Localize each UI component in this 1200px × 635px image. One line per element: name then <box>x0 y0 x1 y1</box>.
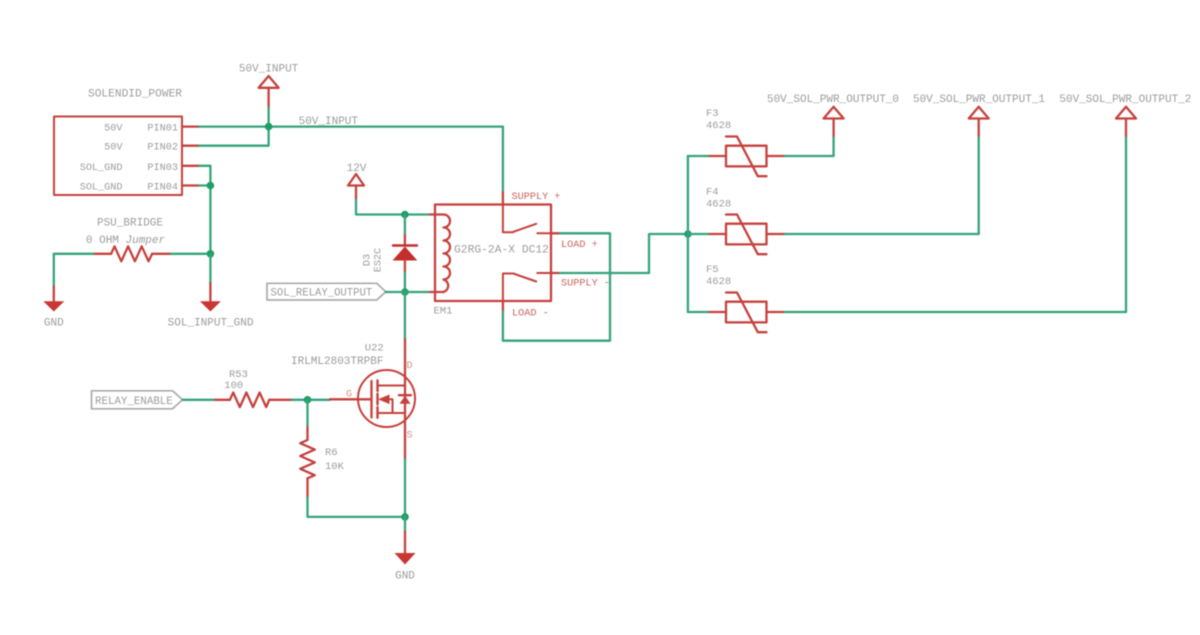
resistor PSU_BRIDGE <box>86 217 171 261</box>
fuse F3 <box>706 108 785 176</box>
svg-text:F3: F3 <box>706 108 719 120</box>
svg-text:LOAD +: LOAD + <box>561 240 598 251</box>
svg-text:50V_INPUT: 50V_INPUT <box>239 64 299 76</box>
junction <box>401 513 409 521</box>
wire <box>386 291 430 293</box>
svg-text:LOAD -: LOAD - <box>512 309 549 320</box>
wire <box>688 155 708 157</box>
fuse F4 <box>706 187 785 255</box>
wire <box>199 125 503 127</box>
power 50V_INPUT <box>239 64 299 108</box>
junction <box>304 396 312 404</box>
wire <box>209 186 211 254</box>
svg-text:4628: 4628 <box>706 276 731 288</box>
resistor R6 <box>300 426 344 498</box>
svg-text:D3: D3 <box>363 254 374 266</box>
pin LOAD- <box>503 301 549 320</box>
wire <box>785 136 834 156</box>
label SOL_RELAY_OUTPUT <box>267 283 386 300</box>
svg-text:R6: R6 <box>325 447 338 459</box>
pin PIN01 <box>104 124 199 135</box>
svg-text:U22: U22 <box>365 343 384 355</box>
wire <box>54 254 94 287</box>
wire <box>292 399 330 401</box>
wire <box>785 136 979 234</box>
pin SUPPLY+ <box>503 191 561 205</box>
svg-text:RELAY_ENABLE: RELAY_ENABLE <box>95 396 173 408</box>
svg-text:S: S <box>407 431 413 442</box>
svg-text:50V: 50V <box>104 124 123 135</box>
wire <box>404 273 406 293</box>
svg-text:SUPPLY +: SUPPLY + <box>512 192 561 203</box>
wire <box>687 156 689 312</box>
junction <box>401 288 409 296</box>
fuse F5 <box>706 264 785 332</box>
svg-text:4628: 4628 <box>706 199 731 211</box>
wire <box>688 233 708 235</box>
power 50V_SOL_PWR_OUTPUT_0 <box>767 94 899 136</box>
svg-text:EM1: EM1 <box>434 306 453 318</box>
relay contact lower <box>503 273 551 301</box>
svg-text:F5: F5 <box>706 264 719 276</box>
svg-text:50V_SOL_PWR_OUTPUT_0: 50V_SOL_PWR_OUTPUT_0 <box>767 94 899 106</box>
svg-text:50V: 50V <box>104 143 123 154</box>
relay coil <box>430 215 450 293</box>
wire <box>404 517 406 532</box>
svg-text:PIN04: PIN04 <box>147 183 178 194</box>
svg-text:0 OHM Jumper: 0 OHM Jumper <box>86 235 166 247</box>
wire <box>688 311 708 313</box>
pin PIN03 <box>80 163 200 174</box>
pin LOAD+ <box>551 233 598 251</box>
svg-text:SUPPLY -: SUPPLY - <box>561 279 610 290</box>
ground GND <box>43 287 64 330</box>
diode D3 <box>363 234 418 273</box>
svg-text:SOL_GND: SOL_GND <box>80 183 123 194</box>
wire <box>785 136 1126 312</box>
wire <box>404 215 406 234</box>
power 12V <box>347 163 367 200</box>
svg-text:PIN03: PIN03 <box>147 163 178 174</box>
label RELAY_ENABLE <box>92 391 183 409</box>
wire <box>199 166 210 186</box>
junction <box>401 211 409 219</box>
relay EM1 <box>434 205 552 318</box>
svg-text:ES2C: ES2C <box>374 248 385 272</box>
resistor R53 <box>215 369 292 407</box>
svg-text:GND: GND <box>44 318 64 330</box>
svg-text:50V_SOL_PWR_OUTPUT_2: 50V_SOL_PWR_OUTPUT_2 <box>1059 94 1191 106</box>
connector SOLENDID_POWER body <box>54 89 182 196</box>
power 50V_SOL_PWR_OUTPUT_1 <box>913 94 1045 136</box>
junction <box>265 123 273 131</box>
wire <box>503 233 610 340</box>
svg-text:D: D <box>407 361 413 372</box>
svg-text:GND: GND <box>395 571 415 583</box>
svg-text:50V_SOL_PWR_OUTPUT_1: 50V_SOL_PWR_OUTPUT_1 <box>913 94 1045 106</box>
svg-text:G: G <box>346 390 352 401</box>
wire <box>306 400 308 426</box>
pin SUPPLY- <box>551 273 610 290</box>
transistor U22 <box>291 339 415 459</box>
wire <box>199 184 210 186</box>
pin PIN02 <box>104 143 199 154</box>
svg-text:50V_INPUT: 50V_INPUT <box>299 116 359 128</box>
wire <box>356 200 430 215</box>
wire <box>267 108 269 127</box>
svg-text:PIN02: PIN02 <box>147 143 178 154</box>
svg-text:SOL_RELAY_OUTPUT: SOL_RELAY_OUTPUT <box>271 288 373 300</box>
junction <box>207 250 215 258</box>
wire <box>502 127 504 191</box>
junction <box>684 230 692 238</box>
pin PIN04 <box>80 183 200 194</box>
svg-text:SOL_GND: SOL_GND <box>80 163 123 174</box>
wire <box>308 498 406 517</box>
svg-text:F4: F4 <box>706 187 719 199</box>
wire <box>404 292 406 339</box>
svg-text:10K: 10K <box>325 461 345 473</box>
svg-text:PSU_BRIDGE: PSU_BRIDGE <box>97 217 163 229</box>
junction <box>207 182 215 190</box>
wire <box>560 234 688 273</box>
svg-text:100: 100 <box>224 380 243 392</box>
ground GND bottom <box>395 532 416 583</box>
svg-text:SOL_INPUT_GND: SOL_INPUT_GND <box>168 318 254 330</box>
wire <box>209 254 211 283</box>
wire <box>199 127 268 146</box>
wire <box>171 253 210 255</box>
svg-text:4628: 4628 <box>706 120 731 132</box>
ground SOL_INPUT_GND <box>168 283 254 329</box>
svg-text:SOLENDID_POWER: SOLENDID_POWER <box>88 89 182 101</box>
power 50V_SOL_PWR_OUTPUT_2 <box>1059 94 1191 136</box>
wire <box>404 459 406 517</box>
wire <box>183 399 216 401</box>
svg-text:PIN01: PIN01 <box>147 124 178 135</box>
relay contact upper <box>503 205 551 234</box>
svg-text:G2RG-2A-X DC12: G2RG-2A-X DC12 <box>454 245 549 257</box>
svg-text:IRLML2803TRPBF: IRLML2803TRPBF <box>291 356 383 368</box>
